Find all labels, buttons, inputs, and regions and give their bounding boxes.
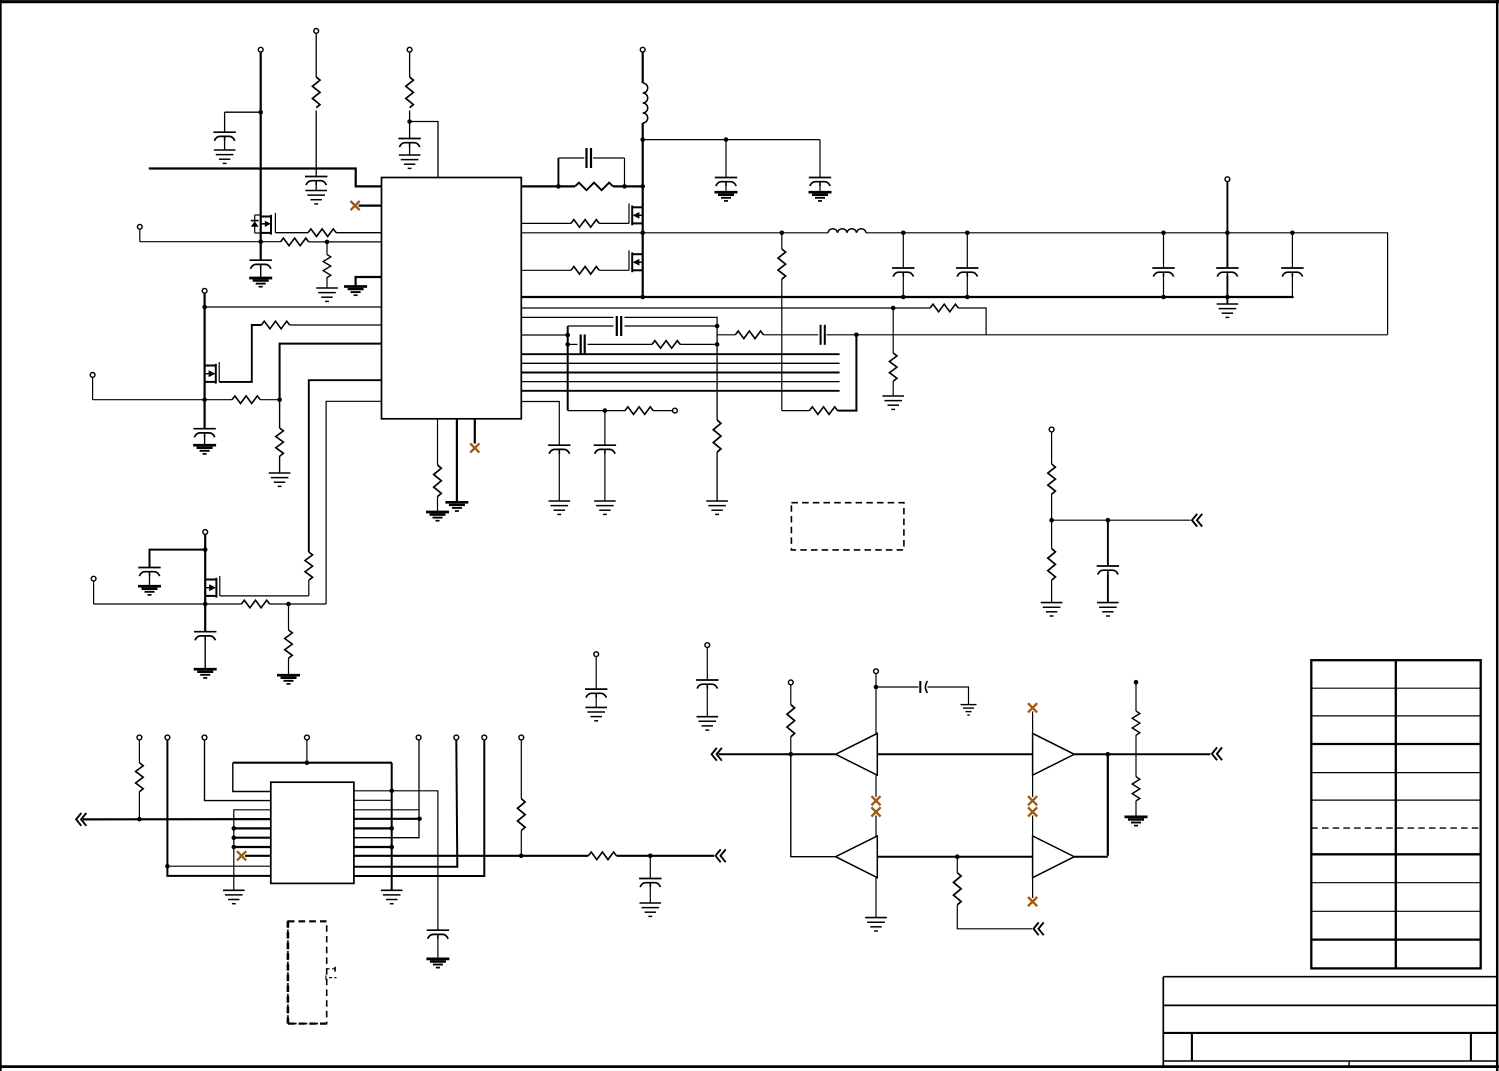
wire R1 to C2 bbox=[315, 111, 317, 177]
wire Q1 source to C4 bbox=[260, 233, 262, 260]
ground U1 PGND bbox=[445, 502, 468, 511]
node J41 bbox=[232, 835, 237, 840]
wire C15 lead bbox=[966, 233, 968, 268]
node J10 bbox=[640, 184, 645, 189]
terminal T21 bbox=[482, 735, 487, 740]
ground AGND bbox=[344, 287, 367, 296]
title block cell divider a bbox=[1191, 1033, 1193, 1061]
transistor Q2 NMOS bbox=[205, 362, 220, 384]
wire comp line B bbox=[521, 317, 717, 326]
wire T16 rail bbox=[167, 740, 270, 876]
wire C8 to ground bbox=[819, 186, 821, 192]
wire C1 top lead bbox=[224, 112, 226, 132]
terminal T13 bbox=[705, 643, 710, 648]
wire U3D base head bbox=[1032, 816, 1034, 836]
wire pin800 bbox=[354, 799, 392, 801]
node J42 bbox=[232, 845, 237, 850]
ground U2 bus bbox=[223, 890, 245, 903]
wire R4 to U1 bbox=[309, 241, 382, 243]
wire R17 to T9 bbox=[653, 410, 672, 412]
op-amp U3B buffer right bbox=[1033, 733, 1075, 775]
node J8 bbox=[556, 184, 561, 189]
capacitor C10 series bbox=[578, 333, 588, 355]
capacitor C4 bbox=[250, 260, 272, 269]
title block top bbox=[1163, 976, 1497, 978]
wire C5 lead bbox=[204, 437, 206, 445]
wire bus line3 bbox=[521, 372, 839, 374]
wire C25 to ground bbox=[649, 887, 651, 903]
wire R5 to ground bbox=[326, 277, 328, 288]
ground U2 right bbox=[381, 890, 403, 903]
resistor R5 bbox=[323, 255, 331, 278]
node J27 bbox=[1161, 231, 1166, 236]
wire U3C base head bbox=[875, 816, 877, 836]
capacitor C3 bbox=[398, 139, 420, 148]
wire T10 to C17 bbox=[1226, 182, 1228, 268]
ground R14 bbox=[882, 396, 904, 409]
wire T21 rail bbox=[354, 740, 484, 876]
node J11 bbox=[640, 137, 645, 142]
wire C18 to PGND bbox=[1291, 276, 1293, 297]
wire J2 to U1 top pin bbox=[410, 122, 438, 178]
wire J51 to C26 bbox=[876, 686, 919, 688]
wire Q2 gate bbox=[219, 325, 261, 382]
connector chevron CH6 bbox=[1034, 922, 1044, 935]
terminal T6 bbox=[202, 288, 207, 293]
wire PGND bus bbox=[521, 296, 1293, 298]
wire top feed left corner bbox=[233, 763, 271, 792]
node J45 bbox=[389, 826, 394, 831]
table row 882 bbox=[1311, 882, 1480, 884]
wire C16 to PGND bbox=[1163, 276, 1165, 297]
vertical net x567 bbox=[567, 326, 569, 411]
ground C20 bbox=[194, 669, 217, 678]
wire J36 to C23 bbox=[1107, 520, 1109, 565]
wire U2 top feed bbox=[233, 762, 392, 764]
node J26 bbox=[965, 295, 970, 300]
page border frame bbox=[0, 0, 1499, 3]
wire output tie vertical bbox=[1107, 754, 1109, 855]
wire U1 pin drop x326 bbox=[326, 401, 381, 604]
wire C18 lead bbox=[1291, 233, 1293, 268]
resistor R23 bbox=[285, 630, 293, 658]
wire U3B base tail bbox=[1032, 775, 1034, 797]
ground C22 bbox=[697, 717, 719, 730]
wire X1 pin stub bbox=[359, 205, 382, 207]
terminal T24 bbox=[874, 669, 879, 674]
wire pin791 to C24 bbox=[354, 791, 438, 930]
resistor R14 bbox=[889, 353, 897, 381]
node J31 bbox=[1290, 231, 1295, 236]
ground C25 bbox=[640, 903, 662, 916]
wire R30 corner to chev bbox=[957, 905, 1032, 929]
wire pin809 bbox=[354, 809, 420, 811]
terminal T10 bbox=[1225, 177, 1230, 182]
wire T14 to R24 bbox=[1051, 432, 1053, 464]
node J19 bbox=[715, 342, 720, 347]
wire X3 stub bbox=[245, 855, 271, 857]
title block left edge bbox=[1162, 977, 1164, 1067]
wire C7 lead bbox=[725, 140, 727, 177]
node J13 bbox=[640, 231, 645, 236]
wire R8 to ground bbox=[279, 456, 281, 472]
wire C10 to R15 bbox=[588, 343, 653, 345]
op-amp U3C buffer left low bbox=[836, 836, 878, 878]
wire J15 to R14 bbox=[892, 308, 894, 353]
wire Q5 gate link bbox=[220, 595, 309, 597]
wire bus line2 bbox=[521, 362, 839, 364]
wire J6 to R8 bbox=[279, 400, 281, 428]
wire J53 to R31 bbox=[1135, 682, 1137, 711]
terminal T19 bbox=[416, 735, 421, 740]
title block line 1061 bbox=[1163, 1060, 1497, 1062]
node J9 bbox=[622, 184, 627, 189]
terminal T5 bbox=[137, 224, 142, 229]
resistor R27 bbox=[518, 799, 526, 831]
wire T18 drop bbox=[306, 740, 308, 763]
wire T3 to R2 bbox=[409, 52, 411, 77]
title block line 1005 bbox=[1163, 1004, 1497, 1006]
capacitor C19 bbox=[138, 568, 160, 577]
wire C6 branch up left bbox=[557, 158, 559, 186]
wire R13 corner to VO line bbox=[958, 308, 986, 335]
wire J4 to R5 bbox=[326, 242, 328, 255]
resistor R3 bbox=[308, 229, 336, 237]
capacitor C25 bbox=[639, 879, 661, 888]
wire R21 to gate corner bbox=[308, 580, 310, 596]
terminal T23 bbox=[788, 680, 793, 685]
resistor R10 bbox=[575, 183, 613, 191]
wire bus line5 bbox=[521, 390, 839, 392]
capacitor C5 bbox=[193, 429, 215, 438]
wire R9 to ground bbox=[437, 497, 439, 512]
ground R23 bbox=[277, 675, 300, 684]
wire T20 rail bbox=[354, 740, 457, 867]
wire bus line1 bbox=[521, 353, 839, 355]
table column divider bbox=[1395, 660, 1397, 968]
node J15 bbox=[891, 306, 896, 311]
table row 744 thick bbox=[1311, 743, 1480, 745]
node J52 bbox=[955, 854, 960, 859]
wire C6 branch up right bbox=[624, 158, 626, 186]
no-connect X3 bbox=[237, 851, 246, 860]
wire Q3 gate bbox=[599, 222, 629, 224]
no-connect X9 bbox=[1028, 897, 1037, 906]
resistor R13 bbox=[930, 304, 958, 312]
terminal T16 bbox=[165, 735, 170, 740]
capacitor C12 bbox=[548, 445, 570, 454]
table row 715 bbox=[1311, 715, 1480, 717]
resistor R20 bbox=[809, 407, 837, 415]
transistor Q4 NMOS low-side bbox=[629, 250, 643, 272]
wire U3D out bbox=[1074, 856, 1108, 858]
ground R25 bbox=[1041, 603, 1063, 616]
wire T15 to R26 bbox=[138, 740, 140, 763]
wire R20 corner up bbox=[838, 335, 857, 411]
wire C21 to ground bbox=[595, 697, 597, 707]
wire T7 line bbox=[93, 399, 232, 401]
ground R5 bbox=[316, 288, 338, 301]
wire R32 to ground bbox=[1135, 801, 1137, 817]
wire T22 to R27 bbox=[520, 740, 522, 799]
terminal T18 bbox=[305, 735, 310, 740]
terminal T14 bbox=[1049, 427, 1054, 432]
node J37 bbox=[137, 817, 142, 822]
wire R19 down bbox=[781, 279, 783, 411]
node J16 bbox=[715, 324, 720, 329]
no-connect X7 bbox=[1028, 796, 1037, 805]
wire R28 to chev bbox=[617, 855, 715, 857]
node J47 bbox=[519, 854, 524, 859]
connector chevron CH3 bbox=[716, 849, 726, 862]
resistor R19 bbox=[778, 249, 786, 279]
wire U3B out bbox=[1074, 753, 1210, 755]
inductor L2 bbox=[828, 229, 866, 233]
connector chevron CH1 bbox=[1192, 514, 1202, 527]
transistor Q3 NMOS high-side bbox=[629, 204, 643, 226]
capacitor C1 bbox=[213, 132, 235, 141]
node J30 bbox=[1225, 295, 1230, 300]
node J1 bbox=[258, 110, 263, 115]
node J25 bbox=[965, 231, 970, 236]
wire Q5 source down bbox=[204, 596, 206, 631]
wire T17 corner pin bbox=[205, 740, 271, 801]
wire C19 lead bbox=[149, 576, 151, 586]
connector chevron CH5 bbox=[1212, 747, 1222, 760]
capacitor C15 bbox=[956, 268, 978, 277]
wire C12 to ground bbox=[558, 454, 560, 501]
wire U3A out to U3B bbox=[877, 753, 1032, 755]
wire C16 lead bbox=[1163, 233, 1165, 268]
node J17 bbox=[565, 333, 570, 338]
resistor R1 bbox=[312, 77, 320, 108]
capacitor C18 bbox=[1281, 268, 1303, 277]
connector chevron CH4 bbox=[712, 748, 722, 761]
wire pin847 bbox=[234, 846, 271, 848]
wire J34 to R23 bbox=[288, 604, 290, 630]
revision table frame bbox=[1311, 660, 1480, 968]
connector chevron CH2 bbox=[76, 813, 86, 826]
wire X6 to U3B base bbox=[1032, 711, 1034, 733]
terminal T15 bbox=[137, 735, 142, 740]
op-amp U3D buffer right low bbox=[1033, 836, 1075, 878]
resistor R6 bbox=[261, 321, 289, 329]
wire T5 down bbox=[139, 229, 141, 242]
capacitor C13 series bbox=[818, 324, 828, 346]
capacitor C8 bbox=[809, 178, 831, 187]
wire T12 to C21 bbox=[595, 657, 597, 689]
node J43 bbox=[389, 789, 394, 794]
wire VOUT line bbox=[866, 233, 1388, 335]
node J20 bbox=[603, 408, 608, 413]
ground C23 bbox=[1097, 603, 1119, 616]
node J49 bbox=[789, 752, 794, 757]
wire T2 to R1 bbox=[315, 33, 317, 77]
wire C14 to PGND bbox=[902, 276, 904, 297]
ground C4 bbox=[249, 278, 272, 287]
resistor R31 bbox=[1132, 711, 1140, 735]
node J14 bbox=[640, 295, 645, 300]
wire pin828 bbox=[234, 827, 271, 829]
wire U3A base tail bbox=[875, 775, 877, 797]
ground C21 bbox=[585, 707, 607, 720]
wire C15 to PGND bbox=[966, 276, 968, 297]
wire buffer line upper bbox=[719, 753, 836, 755]
capacitor C2 bbox=[305, 177, 327, 186]
wire T11 rail bbox=[204, 534, 206, 579]
wire C6 left lead bbox=[558, 157, 584, 159]
resistor R7 bbox=[232, 396, 260, 404]
dashed stub cross bbox=[325, 975, 327, 979]
capacitor C7 bbox=[715, 178, 737, 187]
terminal T12 bbox=[594, 652, 599, 657]
wire R23 to ground bbox=[288, 658, 290, 675]
wire J52 to R30 bbox=[956, 857, 958, 873]
capacitor C21 bbox=[585, 689, 607, 698]
wire SW long line bbox=[521, 232, 828, 234]
terminal T17 bbox=[202, 735, 207, 740]
wire C6 right lead bbox=[593, 157, 624, 159]
node J2 bbox=[407, 119, 412, 124]
node J50 bbox=[1106, 752, 1111, 757]
wire U1 pin to J6 bbox=[280, 344, 382, 400]
no-connect X6 bbox=[1028, 703, 1037, 712]
wire C10 lead bbox=[568, 343, 578, 345]
no-connect X2 bbox=[470, 443, 479, 452]
wire C2 lead bbox=[315, 185, 317, 190]
wire pin847r bbox=[354, 846, 392, 848]
wire C26 corner bbox=[928, 687, 969, 704]
ground C24 bbox=[426, 959, 449, 968]
wire decoupling feed bbox=[643, 139, 820, 141]
terminal T3 bbox=[407, 47, 412, 52]
title block cell divider b bbox=[1470, 1033, 1472, 1061]
node J33 bbox=[203, 602, 208, 607]
node J22 bbox=[780, 231, 785, 236]
wire R3 to U1 bbox=[336, 232, 381, 234]
capacitor C24 bbox=[427, 930, 449, 939]
wire R6 to U1 bbox=[290, 324, 382, 326]
transistor Q5 NMOS bbox=[205, 576, 220, 598]
node J12 bbox=[724, 137, 729, 142]
wire C11 to ground bbox=[604, 454, 606, 501]
wire R25 to ground bbox=[1051, 580, 1053, 602]
wire FB long line bbox=[521, 307, 930, 309]
ground C19 bbox=[138, 586, 161, 595]
wire R10 to SW rail bbox=[613, 185, 643, 187]
wire U1 pin to Q5 gate drop bbox=[309, 380, 382, 552]
wire R7 to J6 bbox=[260, 399, 279, 401]
table row 911 bbox=[1311, 910, 1480, 912]
resistor R9 bbox=[434, 465, 442, 497]
wire R31 to R32 bbox=[1135, 735, 1137, 777]
node J51 bbox=[874, 685, 879, 690]
wire to C1 bbox=[225, 111, 261, 113]
wire J48 to C25 bbox=[649, 856, 651, 878]
wire T13 to C22 bbox=[706, 648, 708, 680]
wire T8 line bbox=[94, 603, 242, 605]
wire pin818 bbox=[354, 818, 420, 820]
ground R32 bbox=[1125, 817, 1148, 826]
wire Q2 source down bbox=[204, 382, 206, 428]
op-amp U3A buffer left bbox=[836, 733, 878, 775]
node J38 bbox=[165, 864, 170, 869]
title block line 1032 bbox=[1163, 1032, 1497, 1034]
resistor R17 bbox=[625, 407, 653, 415]
terminal T7 bbox=[90, 373, 95, 378]
table row 854 thick bbox=[1311, 853, 1480, 855]
node J24 bbox=[901, 295, 906, 300]
wire C7 to ground bbox=[725, 186, 727, 192]
resistor R18 bbox=[735, 331, 763, 339]
node J32 bbox=[203, 547, 208, 552]
table row 772 bbox=[1311, 772, 1480, 774]
op IC U2 body bbox=[271, 782, 354, 883]
node J53 bbox=[1134, 680, 1139, 685]
inductor L1 bbox=[643, 83, 648, 123]
wire R16 to ground bbox=[716, 452, 718, 501]
ground C1 bbox=[214, 150, 236, 163]
wire T1 drain rail bbox=[260, 52, 262, 216]
ground U3C bbox=[865, 918, 887, 931]
dashed box DNP2 bbox=[288, 921, 327, 1023]
wire R26 to J37 bbox=[138, 792, 140, 819]
wire bus line4 bbox=[521, 381, 839, 383]
no-connect X5 bbox=[871, 807, 880, 816]
transistor Q1 PMOS bbox=[251, 213, 276, 235]
wire J5 to U1 bbox=[205, 306, 382, 308]
capacitor C11 bbox=[594, 445, 616, 454]
vertical net x717 bbox=[716, 326, 718, 420]
capacitor C6 series plates bbox=[587, 148, 592, 168]
wire R24 to J35 bbox=[1051, 494, 1053, 549]
resistor R8 bbox=[276, 428, 284, 456]
node J35 bbox=[1049, 518, 1054, 523]
table row 800 bbox=[1311, 799, 1480, 801]
resistor R32 bbox=[1132, 777, 1140, 801]
wire U3C base to ground bbox=[875, 878, 877, 918]
wire C4 lead bbox=[260, 269, 262, 278]
wire R15 to J19 bbox=[680, 343, 717, 345]
wire gnd bus corner pin bbox=[234, 810, 271, 890]
node J44 bbox=[417, 817, 422, 822]
table row 828 dashed bbox=[1311, 827, 1480, 829]
ground C2 bbox=[305, 191, 327, 204]
title block bottom divider bbox=[1348, 1061, 1350, 1067]
node J7 bbox=[202, 397, 207, 402]
node J5 bbox=[202, 305, 207, 310]
wire U1 to R11 bbox=[521, 222, 571, 224]
node J28 bbox=[1161, 295, 1166, 300]
ground C26 bbox=[961, 705, 977, 716]
wire T7 down bbox=[92, 377, 94, 399]
wire pin828r bbox=[354, 827, 392, 829]
node J36 bbox=[1106, 518, 1111, 523]
wire Q1 gate bbox=[274, 231, 276, 233]
resistor R12 bbox=[571, 267, 599, 275]
wire lower line mid bbox=[877, 856, 1032, 858]
resistor R11 bbox=[571, 220, 599, 228]
ground C5 bbox=[193, 445, 216, 454]
wire J49 drop to lower line bbox=[791, 754, 836, 856]
capacitor C16 bbox=[1152, 268, 1174, 277]
wire C24 to ground bbox=[437, 939, 439, 959]
wire T8 down bbox=[93, 581, 95, 604]
wire R18 to C13 bbox=[764, 334, 820, 336]
capacitor C17 bbox=[1216, 268, 1238, 277]
op IC U1 main controller body bbox=[382, 178, 522, 419]
wire R22 to corner x326 bbox=[270, 603, 327, 605]
